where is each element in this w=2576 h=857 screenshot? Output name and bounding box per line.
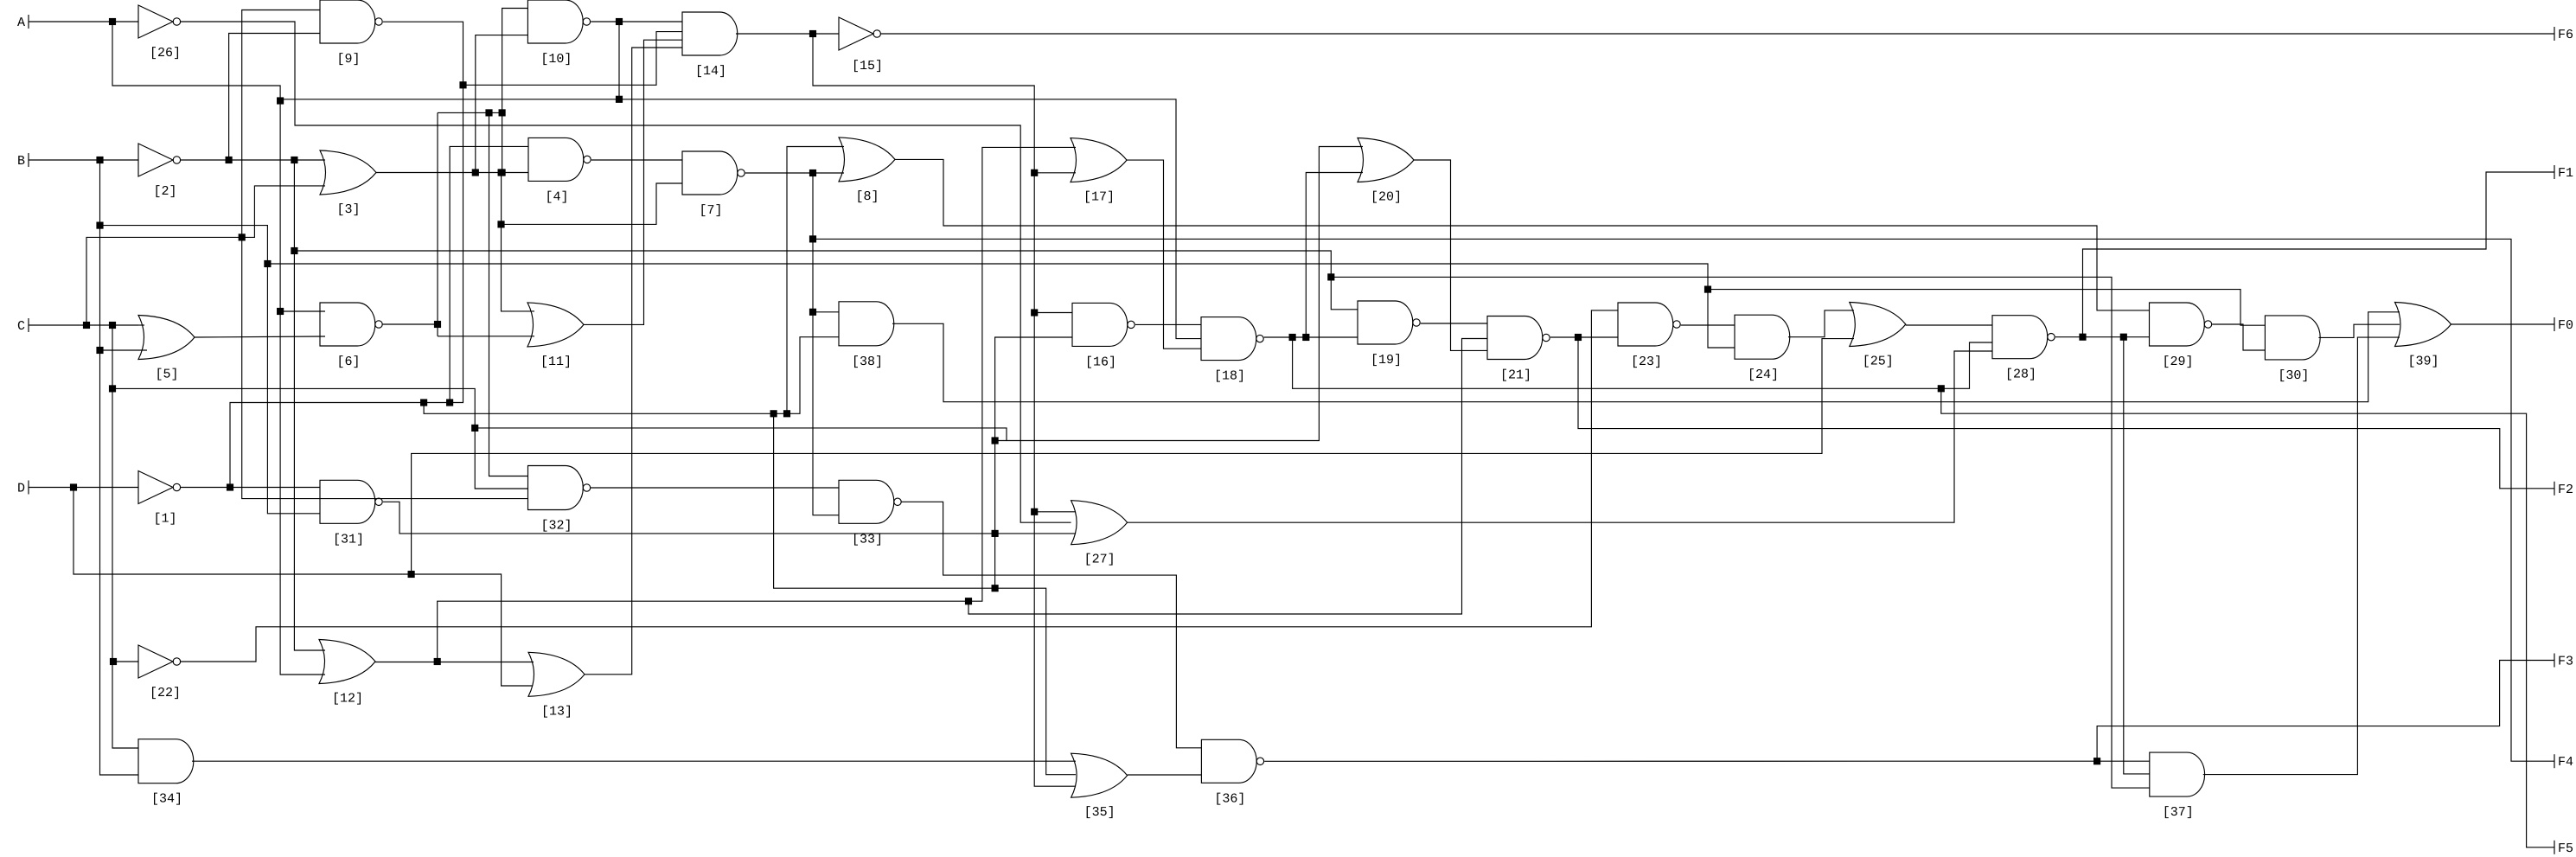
svg-text:[38]: [38] [852,355,883,369]
svg-text:D: D [17,482,25,496]
svg-text:[17]: [17] [1083,190,1115,205]
svg-text:[12]: [12] [332,692,363,707]
svg-text:[19]: [19] [1371,353,1402,368]
svg-text:B: B [17,154,25,169]
svg-text:F4: F4 [2558,755,2573,770]
svg-text:C: C [17,319,25,334]
svg-text:[6]: [6] [336,355,360,369]
svg-text:[8]: [8] [855,189,879,204]
svg-text:[4]: [4] [545,189,568,204]
svg-text:[37]: [37] [2163,805,2194,820]
svg-text:[18]: [18] [1214,369,1245,384]
svg-text:F5: F5 [2558,841,2573,856]
svg-text:[31]: [31] [333,532,364,547]
svg-text:[14]: [14] [695,64,726,79]
svg-text:[15]: [15] [852,59,883,74]
svg-text:[27]: [27] [1084,553,1115,567]
svg-text:[21]: [21] [1500,368,1531,383]
svg-text:[16]: [16] [1085,355,1116,369]
svg-text:[23]: [23] [1631,355,1662,369]
svg-text:[25]: [25] [1863,355,1894,369]
svg-text:[7]: [7] [699,203,722,218]
svg-text:F1: F1 [2558,166,2573,181]
svg-text:[36]: [36] [1214,791,1245,806]
svg-text:[26]: [26] [150,46,181,61]
svg-text:[2]: [2] [153,184,176,199]
svg-text:F6: F6 [2558,28,2573,42]
svg-text:[34]: [34] [151,792,182,807]
svg-text:F2: F2 [2558,483,2573,497]
svg-text:[30]: [30] [2278,368,2309,383]
svg-text:[9]: [9] [336,52,360,67]
svg-text:A: A [17,16,25,30]
svg-text:[35]: [35] [1084,805,1115,820]
svg-text:[28]: [28] [2005,368,2036,382]
svg-text:[22]: [22] [150,686,181,700]
svg-text:[20]: [20] [1371,190,1402,205]
svg-text:F0: F0 [2558,318,2573,333]
svg-text:F3: F3 [2558,655,2573,669]
svg-text:[11]: [11] [540,355,572,369]
svg-text:[10]: [10] [540,52,572,67]
svg-text:[13]: [13] [541,704,572,719]
svg-text:[5]: [5] [155,368,178,382]
svg-text:[3]: [3] [336,202,360,217]
svg-text:[24]: [24] [1748,368,1779,382]
svg-text:[39]: [39] [2407,355,2439,369]
svg-text:[32]: [32] [540,519,572,534]
svg-text:[1]: [1] [153,512,176,527]
svg-text:[29]: [29] [2162,355,2193,369]
svg-text:[33]: [33] [852,532,883,547]
